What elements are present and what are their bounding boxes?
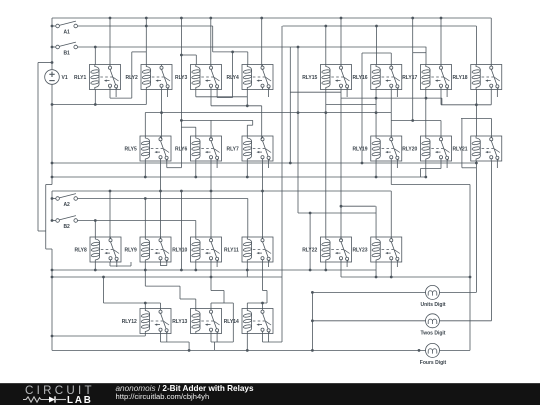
wire y303 link RLY14 bbox=[247, 302, 267, 304]
relay RLY20 bbox=[402, 136, 451, 161]
junction bus270 x310.1 bbox=[309, 269, 312, 272]
switch A2 bbox=[56, 194, 78, 208]
wire RLY17 common drop bbox=[440, 18, 442, 66]
wire RLY15 NC to RLY22 common bbox=[340, 90, 342, 241]
junction bottom bus RLY14 coil bbox=[246, 349, 249, 352]
wire units lamp wire right bbox=[439, 291, 476, 293]
svg-text:RLY21: RLY21 bbox=[452, 146, 467, 152]
svg-text:B1: B1 bbox=[63, 51, 70, 57]
junction bus277 RLY23 coil btm bbox=[375, 276, 378, 279]
wire y104.4 link bbox=[326, 103, 376, 105]
wire x362 drop bbox=[361, 53, 363, 163]
wire RLY11 NO stub bbox=[268, 262, 270, 267]
wire RLY1 coil bottom bbox=[94, 90, 96, 105]
junction x181.4 y55 bbox=[180, 54, 183, 57]
wire x224 drop bbox=[223, 291, 225, 304]
wire y53 link RLY16 bbox=[362, 52, 391, 54]
junction y112.6 RLY16 coil bbox=[375, 111, 378, 114]
junction bus177 RLY7 coil bbox=[246, 176, 249, 179]
svg-text:RLY23: RLY23 bbox=[352, 247, 367, 253]
junction bus277 x103.5 bbox=[102, 276, 105, 279]
junction B2 left bbox=[51, 219, 54, 222]
wire RLY15 coil feed bbox=[325, 26, 327, 65]
wire RLY5 NC drop bbox=[160, 161, 162, 191]
wire RLY12 NC stub bbox=[160, 334, 162, 343]
wire RLY17 NO stub bbox=[446, 90, 448, 98]
svg-text:A2: A2 bbox=[63, 202, 70, 208]
wire outer left rail x38 bbox=[37, 63, 39, 232]
wire y98.1 link bbox=[341, 97, 442, 99]
junction B1 line x298 bbox=[297, 46, 300, 49]
wire y168.5 link RLY20 NC bbox=[421, 168, 442, 170]
wire RLY1 NO stub bbox=[115, 90, 117, 98]
lamp Fours Digit bbox=[420, 343, 447, 366]
wire x232.6 U riser bbox=[232, 52, 234, 98]
wire RLY3 coil bottom bbox=[195, 90, 197, 97]
svg-text:http://circuitlab.com/cbjh4yh: http://circuitlab.com/cbjh4yh bbox=[116, 392, 210, 401]
wire x103.5 drop bbox=[103, 277, 105, 303]
junction y51.9 x232.6 bbox=[231, 51, 234, 54]
wire y290.5 link a bbox=[211, 290, 224, 292]
wire RLY8 NO stub bbox=[116, 262, 118, 267]
wire RLY15 common drop bbox=[340, 18, 342, 66]
wire y286.1 link bbox=[145, 285, 180, 287]
wire RLY1 NC drop bbox=[109, 90, 111, 99]
wire x310.1 drop bbox=[309, 213, 311, 270]
wire RLY17 NC drop bbox=[440, 90, 442, 105]
junction y98.1 RLY17 coil bbox=[425, 97, 428, 100]
wire y96.8 link bbox=[196, 96, 248, 98]
relay RLY12 bbox=[122, 309, 171, 334]
wire RLY19 NC drop bbox=[390, 161, 392, 185]
relay RLY6 bbox=[175, 136, 222, 161]
wire RLY20 NO stub bbox=[446, 161, 448, 168]
svg-text:RLY19: RLY19 bbox=[352, 146, 367, 152]
wire y303 to riser bbox=[224, 302, 233, 304]
junction bus277 x470 bbox=[469, 276, 472, 279]
wire A2 B2 feeder bbox=[51, 191, 53, 221]
wire RLY9 NC U bottom bbox=[160, 265, 166, 267]
footer bar bbox=[0, 383, 540, 405]
wire RLY5 NO stub bbox=[166, 161, 168, 168]
wire left rail lower bbox=[51, 249, 53, 350]
junction bus277 RLY10 NC bbox=[210, 276, 213, 279]
svg-text:V1: V1 bbox=[62, 75, 68, 81]
junction bus104.5 left rail bbox=[51, 103, 54, 106]
svg-text:Twos Digit: Twos Digit bbox=[421, 331, 446, 337]
wire x282 drop bbox=[281, 26, 283, 342]
wire RLY8 NC U left bbox=[109, 262, 111, 266]
svg-text:RLY8: RLY8 bbox=[74, 247, 87, 253]
wire y299 link RLY13 coil bbox=[180, 298, 196, 300]
wire twos lamp wire right bbox=[439, 320, 491, 322]
wire RLY6 NC drop bbox=[210, 161, 212, 191]
wire RLY12 coil bottom bbox=[144, 334, 146, 337]
junction x181.4 y120.4 bbox=[180, 119, 183, 122]
wire RLY8 coil bottom bbox=[94, 262, 96, 270]
wire B1 drop x298 bbox=[297, 47, 299, 213]
wire y342 link RLY12 bbox=[161, 341, 190, 343]
wire top bus bbox=[52, 17, 491, 19]
wire RLY14 NC stub bbox=[262, 334, 264, 343]
wire RLY2 coil bottom bbox=[145, 90, 147, 105]
wire RLY23 coil bottom bbox=[375, 262, 377, 277]
wire RLY22 NC drop bbox=[340, 262, 342, 277]
junction bus277 left rail bbox=[51, 276, 54, 279]
svg-text:Fours Digit: Fours Digit bbox=[420, 360, 447, 366]
wire RLY5 coil bottom bbox=[144, 161, 146, 177]
wire RLY7 coil bottom bbox=[246, 161, 248, 177]
relay RLY10 bbox=[172, 237, 221, 262]
wire y342 link RLY13 bbox=[211, 341, 233, 343]
relay RLY21 bbox=[452, 136, 501, 161]
wire RLY20 NC jog down bbox=[420, 169, 422, 178]
wire RLY2 NC to RLY5 common bbox=[161, 90, 163, 140]
wire y52.7 link RLY17 bbox=[413, 52, 426, 54]
relay RLY2 bbox=[125, 65, 172, 90]
wire left rail jog y249 bbox=[46, 248, 52, 250]
junction A1 line RLY16 feed bbox=[375, 25, 378, 28]
wire RLY3 NO stub bbox=[216, 90, 218, 98]
wire RLY9 NC U right bbox=[166, 262, 168, 266]
wire x145.3 drop bbox=[144, 262, 146, 286]
wire bus y270 bbox=[52, 269, 376, 271]
wire y290.5 link b bbox=[263, 290, 268, 292]
wire y51.9 link RLY1 NC to RLY2 coil bbox=[132, 51, 147, 53]
wire RLY21 NO stub bbox=[496, 161, 498, 168]
junction bottom bus x312.4 bbox=[311, 349, 314, 352]
wire RLY21 coil btm to units lamp bbox=[475, 161, 477, 292]
wire V1 top to outer rail bbox=[38, 62, 52, 64]
wire y120.4 link bbox=[181, 119, 252, 121]
wire left rail top bbox=[51, 18, 53, 70]
wire bus y191 bbox=[52, 190, 391, 192]
wire stub B1 left bbox=[52, 46, 56, 48]
lamp Units Digit bbox=[421, 285, 446, 308]
wire y342 link RLY14 bbox=[263, 341, 283, 343]
relay RLY16 bbox=[352, 65, 401, 90]
junction bus270 RLY10 coil bbox=[194, 269, 197, 272]
wire y127.2 link RLY6 coil bbox=[181, 126, 195, 128]
wire x441.9 jog bbox=[441, 98, 443, 105]
wire RLY4 NO stub bbox=[268, 90, 270, 98]
wire RLY11 NC drop bbox=[262, 262, 264, 277]
junction bottom bus x419 bbox=[418, 349, 421, 352]
svg-text:RLY9: RLY9 bbox=[124, 247, 137, 253]
relay RLY9 bbox=[124, 237, 171, 262]
wire RLY5 coil feed bbox=[144, 113, 146, 136]
svg-text:RLY12: RLY12 bbox=[122, 319, 137, 325]
wire y184.5 link bbox=[391, 184, 470, 186]
junction bus177 RLY20 coil bbox=[424, 176, 427, 179]
junction left rail A1 bbox=[51, 25, 54, 28]
wire bus y163 bbox=[52, 162, 476, 164]
junction bus177 RLY19 coil bbox=[375, 176, 378, 179]
wire y167.7 U RLY5 NO bbox=[167, 167, 182, 169]
wire RLY15 coil btm to RLY22 coil bbox=[325, 90, 327, 238]
wire x180 drop bbox=[179, 286, 181, 299]
wire x461.9 drop bbox=[461, 119, 463, 168]
junction bus177 RLY5 coil bbox=[144, 176, 147, 179]
wire RLY12 coil stub bbox=[144, 303, 146, 309]
junction bottom bus x189.1 bbox=[188, 349, 191, 352]
wire RLY20 NC drop bbox=[440, 161, 442, 169]
wire y303 link RLY13 common bbox=[211, 302, 224, 304]
wire RLY2 coil feed bbox=[145, 18, 147, 65]
svg-text:RLY10: RLY10 bbox=[172, 247, 187, 253]
wire RLY3 NC drop bbox=[210, 90, 212, 106]
junction A2 RLY9 coil bbox=[144, 197, 147, 200]
junction bus270 RLY11 coil bbox=[246, 269, 249, 272]
wire y167.8 link bbox=[462, 167, 477, 169]
wire RLY3 coil feed bbox=[195, 55, 197, 65]
junction NC return y104.8 bbox=[475, 103, 478, 106]
junction bus177 left rail bbox=[51, 176, 54, 179]
junction y303 RLY14 common bbox=[261, 302, 264, 305]
wire RLY13 common stub bbox=[210, 303, 212, 309]
wire RLY11 coil bottom bbox=[246, 262, 248, 277]
relay RLY7 bbox=[226, 136, 273, 161]
junction bus270 left rail bbox=[51, 269, 54, 272]
relay RLY13 bbox=[172, 309, 221, 334]
wire RLY12 common stub bbox=[160, 303, 162, 309]
junction y120.5 x412.7 bbox=[411, 119, 414, 122]
relay RLY8 bbox=[74, 237, 121, 262]
junction B1 line RLY1 coil bbox=[94, 46, 97, 49]
relay RLY14 bbox=[224, 309, 273, 334]
wire x312.4 lamp feeder bbox=[311, 292, 313, 350]
wire RLY23 NO stub bbox=[396, 262, 398, 267]
wire RLY7 NO stub bbox=[268, 161, 270, 168]
wire B2 output bbox=[77, 220, 195, 222]
wire stub A1 left bbox=[52, 25, 56, 27]
wire RLY2 NO stub bbox=[167, 90, 169, 98]
junction bus163 left rail bbox=[51, 162, 54, 165]
wire left rail jog y184.5 bbox=[46, 184, 52, 186]
junction left rail V1 top bbox=[51, 61, 54, 64]
wire y97.5 U RLY3 NO bbox=[217, 97, 233, 99]
wire RLY16 common drop bbox=[390, 53, 392, 66]
wire x131.8 U riser bbox=[131, 52, 133, 98]
wire RLY4 coil feed bbox=[247, 52, 249, 65]
switch A1 bbox=[56, 21, 78, 35]
wire RLY10 coil bottom bbox=[195, 262, 197, 270]
wire x214.4 drop bbox=[213, 342, 215, 350]
switch B1 bbox=[56, 42, 78, 56]
wire x267 drop bbox=[266, 291, 268, 304]
junction bus163 x362 bbox=[361, 162, 364, 165]
wire RLY9 common feed bbox=[160, 191, 162, 239]
wire RLY18 coil btm to RLY21 coil bbox=[475, 90, 477, 137]
wire RLY1 common drop bbox=[109, 18, 111, 66]
svg-text:RLY14: RLY14 bbox=[224, 319, 239, 325]
relay RLY22 bbox=[302, 237, 351, 262]
wire RLY20 coil bottom bbox=[425, 161, 427, 177]
svg-text:LAB: LAB bbox=[67, 395, 92, 405]
junction units lamp feeder bbox=[311, 291, 314, 294]
wire RLY13 coil stub bbox=[195, 299, 197, 309]
relay RLY17 bbox=[402, 65, 451, 90]
relay RLY19 bbox=[352, 136, 401, 161]
wire RLY7 coil feed bbox=[246, 125, 248, 136]
wire y125.2 jog bbox=[247, 124, 252, 126]
relay RLY18 bbox=[452, 65, 501, 90]
junction A1 line RLY2 coil bbox=[145, 25, 148, 28]
junction bus191 RLY9 common bbox=[159, 190, 162, 193]
wire y55 link RLY3 coil bbox=[181, 54, 196, 56]
wire A1 output left segment bbox=[77, 25, 212, 27]
wire A2 output bbox=[77, 198, 247, 200]
relay RLY1 bbox=[74, 65, 121, 90]
wire x181.7 drop lower bbox=[180, 191, 182, 270]
wire x181.4 drop bbox=[180, 18, 182, 168]
wire RLY9 coil feed bbox=[144, 199, 146, 238]
wire RLY8 common feed bbox=[109, 191, 111, 239]
wire RLY16 coil feed bbox=[376, 53, 378, 65]
junction bus270 x181.4 bbox=[180, 269, 183, 272]
wire A1 net right segment y26 bbox=[283, 25, 477, 27]
wire y303 link RLY12 bbox=[104, 302, 161, 304]
wire B1 output bbox=[77, 46, 426, 48]
junction y112.6 x325.8 bbox=[324, 111, 327, 114]
svg-text:RLY16: RLY16 bbox=[352, 75, 367, 81]
junction top bus RLY15 common bbox=[340, 17, 343, 20]
relay RLY23 bbox=[352, 237, 401, 262]
wire RLY15 NO stub bbox=[346, 90, 348, 98]
wire RLY19 common feed bbox=[390, 113, 392, 138]
wire y112.6 long link bbox=[145, 112, 391, 114]
wire y51.9 link A1 to RLY4 coil bbox=[213, 51, 248, 53]
wire RLY6 NO stub bbox=[216, 161, 218, 168]
relay RLY15 bbox=[302, 65, 351, 90]
CircuitLab logo resistor-diode squiggle bbox=[23, 397, 49, 402]
wire units lamp wire left bbox=[312, 291, 425, 293]
lamp Twos Digit bbox=[421, 314, 446, 337]
wire B1 drop x290.3 bbox=[289, 47, 291, 163]
wire y120.5 link bbox=[391, 120, 441, 122]
wire x233.3 riser bbox=[232, 303, 234, 342]
wire y206.2 link bbox=[341, 205, 376, 207]
wire RLY21 common feed bbox=[491, 119, 493, 138]
wire y118.5 link bbox=[461, 118, 492, 120]
wire RLY14 common stub bbox=[262, 303, 264, 309]
wire y92.2 link bbox=[290, 91, 341, 93]
wire bottom bus right of fours lamp bbox=[439, 349, 470, 351]
junction top bus x181.4 bbox=[180, 17, 183, 20]
junction bus270 RLY8 coil bbox=[94, 269, 97, 272]
wire RLY10 coil feed bbox=[195, 221, 197, 238]
junction top bus RLY4 common bbox=[260, 17, 263, 20]
wire x412.7 drop bbox=[412, 18, 414, 121]
wire outer left rail x45.75 bbox=[45, 185, 47, 250]
svg-text:RLY18: RLY18 bbox=[452, 75, 467, 81]
wire bottom bus left of fours lamp bbox=[52, 349, 426, 351]
wire RLY13 NC stub bbox=[210, 334, 212, 343]
wire RLY7 common feed bbox=[261, 106, 263, 139]
wire RLY11 common feed bbox=[262, 191, 264, 239]
wire RLY16 NO stub bbox=[396, 90, 398, 98]
wire RLY22 coil bottom bbox=[325, 262, 327, 270]
wire RLY23 coil feed bbox=[375, 206, 377, 237]
wire RLY9 NC U left bbox=[159, 262, 161, 266]
junction top bus RLY1 common bbox=[109, 17, 112, 20]
junction y206.2 x341 bbox=[340, 205, 343, 208]
junction bus277 RLY23 NC bbox=[390, 276, 393, 279]
wire bus y336 bbox=[52, 335, 145, 337]
wire bus y277 right bbox=[341, 276, 470, 278]
wire NC return row1 right y104.8 bbox=[441, 104, 491, 106]
wire RLY16 coil btm to RLY19 coil bbox=[375, 90, 377, 137]
wire RLY18 NO stub bbox=[496, 90, 498, 98]
wire y105.8 link bbox=[211, 105, 262, 107]
wire RLY18 coil feed bbox=[475, 26, 477, 65]
junction left rail B1 bbox=[51, 46, 54, 49]
wire bus y177 bbox=[52, 176, 426, 178]
junction bus336 left rail bbox=[51, 335, 54, 338]
wire RLY10 common feed bbox=[210, 191, 212, 239]
wire RLY10 NC drop bbox=[210, 262, 212, 277]
junction bus177 RLY6 coil bbox=[194, 176, 197, 179]
wire RLY17 coil feed bbox=[425, 47, 427, 65]
wire RLY14 NO stub bbox=[268, 334, 270, 343]
junction y303 RLY12 coil bbox=[144, 302, 147, 305]
wire RLY18 common drop bbox=[490, 18, 492, 66]
switch B2 bbox=[56, 216, 78, 230]
junction bus270 RLY22 coil bbox=[324, 269, 327, 272]
wire x252.7 jog bbox=[252, 120, 254, 125]
svg-text:RLY1: RLY1 bbox=[74, 75, 87, 81]
wire RLY3 common drop bbox=[210, 18, 212, 66]
wire RLY19 coil bottom bbox=[375, 161, 377, 177]
wire stub A2 left bbox=[52, 198, 56, 200]
wire RLY19 NO stub bbox=[396, 161, 398, 168]
wire RLY14 coil bottom bbox=[246, 334, 248, 351]
junction A2 left bbox=[51, 197, 54, 200]
svg-text:RLY5: RLY5 bbox=[124, 146, 137, 152]
junction bus191 RLY10 common bbox=[210, 190, 213, 193]
svg-text:B2: B2 bbox=[63, 224, 70, 230]
junction B2 RLY8 coil bbox=[94, 219, 97, 222]
wire RLY6 common feed bbox=[210, 120, 212, 139]
junction top bus x412.7 bbox=[411, 17, 414, 20]
wire RLY23 common feed bbox=[390, 191, 392, 239]
junction bus191 RLY11 common bbox=[261, 190, 264, 193]
wire y98.1 U RLY1 NC bbox=[110, 97, 132, 99]
relay RLY11 bbox=[224, 237, 273, 262]
wire y213 link bbox=[298, 212, 376, 214]
wire bus y104.5 bbox=[52, 104, 146, 106]
junction y98.1 RLY16 coil bbox=[375, 97, 378, 100]
relay RLY4 bbox=[226, 65, 273, 90]
wire RLY13 NO stub bbox=[216, 334, 218, 343]
svg-text:Units Digit: Units Digit bbox=[421, 302, 446, 308]
junction bus163 RLY21 coil bbox=[475, 162, 478, 165]
svg-text:RLY11: RLY11 bbox=[224, 247, 239, 253]
wire bus y277 left bbox=[52, 276, 282, 278]
wire RLY20 common feed bbox=[440, 121, 442, 138]
junction top bus RLY17 common bbox=[440, 17, 443, 20]
junction top bus RLY3 common bbox=[209, 17, 212, 20]
junction top bus RLY2 coil bbox=[145, 17, 148, 20]
wire RLY14 coil stub bbox=[246, 303, 248, 309]
wire RLY17 coil btm to RLY20 coil bbox=[425, 90, 427, 137]
svg-text:RLY20: RLY20 bbox=[402, 146, 417, 152]
wire RLY16 feed drop bbox=[376, 26, 378, 53]
wire RLY8 NC U right bbox=[130, 262, 132, 266]
junction y112.6 x298 bbox=[297, 111, 300, 114]
wire RLY22 NO stub bbox=[346, 262, 348, 267]
wire twos lamp wire left bbox=[312, 320, 425, 322]
